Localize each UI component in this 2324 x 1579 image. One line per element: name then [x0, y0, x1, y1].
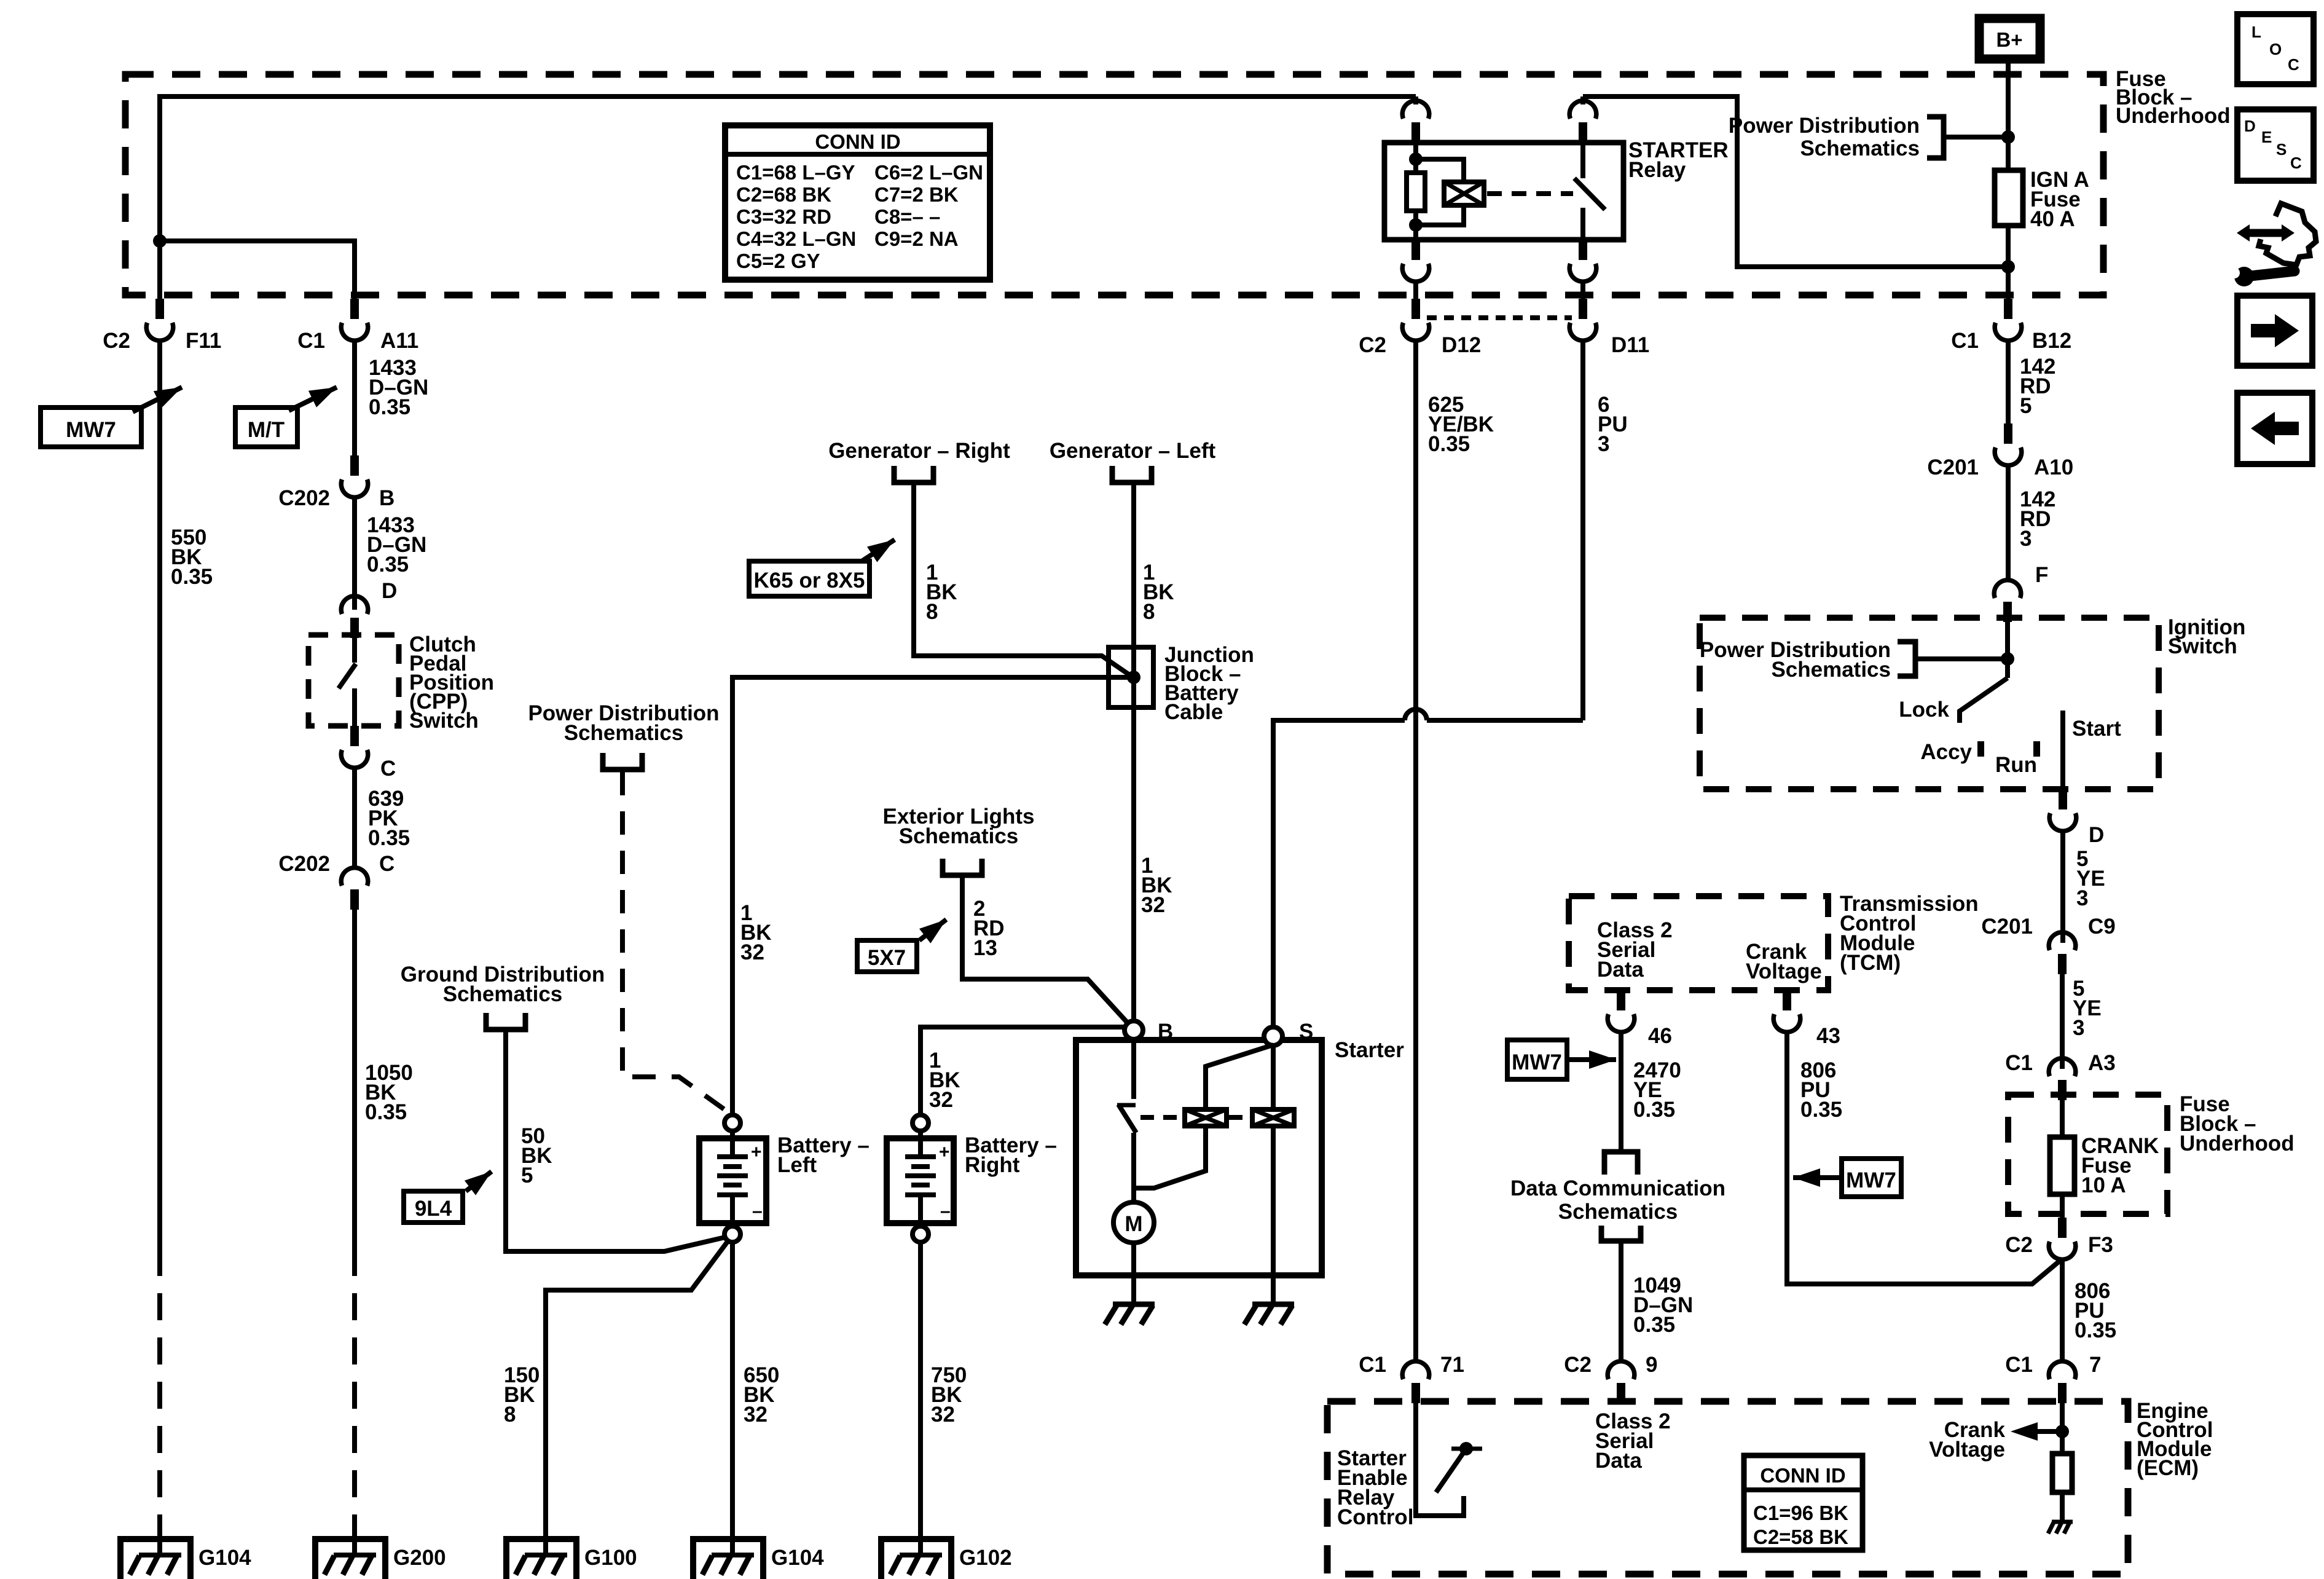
coil relay solenoid winding [1444, 182, 1484, 205]
node junction dot at power distribution tap [2001, 130, 2015, 144]
node junction dot on F11 wire [153, 234, 167, 248]
tick Run position [2033, 741, 2040, 757]
junction block battery cable box [1109, 647, 1153, 707]
svg-text:D11: D11 [1611, 333, 1649, 357]
wire relay switch pin internal lower [1580, 208, 1585, 240]
svg-text:32: 32 [931, 1403, 955, 1427]
svg-text:Schematics: Schematics [1558, 1200, 1678, 1224]
wire into CRANK fuse [2060, 1100, 2065, 1137]
wire motor to ground [1131, 1243, 1136, 1303]
wire dashed power distribution to battery positive [622, 772, 727, 1111]
svg-text:MW7: MW7 [66, 418, 116, 442]
svg-text:Relay: Relay [1628, 158, 1686, 182]
connector relay coil pin lower inner [1402, 240, 1429, 282]
svg-text:C1: C1 [1951, 329, 1979, 353]
label C1 A3 [2005, 1051, 2116, 1075]
node ECM crank voltage dot [2055, 1425, 2069, 1438]
bracket power distribution schematics (top) [1927, 117, 1944, 158]
wire starter enable relay control internal [1416, 1403, 1464, 1516]
svg-text:0.35: 0.35 [1633, 1313, 1675, 1337]
wire branch junction block to battery left [732, 677, 1134, 1115]
svg-text:32: 32 [929, 1088, 953, 1112]
box MW7 reference (TCM) [1507, 1040, 1567, 1079]
wire starter S to ground [1271, 1126, 1276, 1275]
ignition switch dashed box [1700, 618, 2159, 789]
ground G104 center [693, 1539, 763, 1579]
svg-text:Schematics: Schematics [564, 721, 684, 745]
svg-text:S: S [2276, 140, 2287, 159]
node ignition feed dot [2001, 652, 2014, 666]
bracket exterior lights off-page [943, 859, 982, 875]
wire relay actuation dashed link [1487, 191, 1573, 196]
svg-text:C6=2 L–GN: C6=2 L–GN [874, 161, 983, 184]
svg-text:G100: G100 [584, 1546, 637, 1570]
wire stub into ground G200 [352, 1518, 357, 1556]
connector pin C below CPP switch [341, 726, 368, 768]
svg-text:32: 32 [1141, 893, 1165, 917]
wire stub into ground G104 left [157, 1518, 162, 1556]
wire starter B internal [1131, 1039, 1136, 1099]
box M/T reference [235, 408, 297, 447]
svg-text:M: M [1125, 1212, 1142, 1236]
wire starter S internal [1271, 1045, 1276, 1109]
wire dashed 1050 BK to G200 [352, 1249, 357, 1518]
connector TCM pin 43 [1773, 990, 1800, 1032]
node junction block dot [1127, 671, 1140, 684]
table CONN ID underhood fuse block [725, 125, 990, 280]
label Power Distribution Schematics (left) [528, 701, 719, 745]
svg-text:0.35: 0.35 [171, 565, 213, 589]
svg-text:Switch: Switch [2168, 634, 2237, 658]
svg-text:F: F [2035, 563, 2048, 587]
svg-text:D: D [2089, 823, 2104, 847]
ground G104 left [120, 1539, 190, 1579]
bracket data communication upper [1604, 1152, 1638, 1175]
svg-text:0.35: 0.35 [369, 395, 410, 419]
connector C1 71 into ECM [1402, 1361, 1429, 1403]
svg-text:B12: B12 [2032, 329, 2071, 353]
wire 1 BK generator left to starter B [1131, 485, 1136, 1020]
svg-text:3: 3 [2020, 527, 2032, 551]
connector relay switch pin lower inner [1569, 240, 1596, 282]
svg-text:A11: A11 [380, 329, 418, 353]
svg-text:+: + [939, 1142, 950, 1162]
box 5X7 reference [857, 940, 917, 972]
connector C202 C [341, 868, 368, 910]
svg-text:10 A: 10 A [2081, 1173, 2126, 1197]
wire starter solenoid actuation dashes [1140, 1115, 1250, 1120]
coil starter solenoid pull-in [1185, 1109, 1227, 1126]
svg-text:C202: C202 [278, 852, 330, 876]
table CONN ID rows left column [736, 161, 856, 272]
arrow MW7 to wire 806 [1793, 1175, 1842, 1180]
svg-text:O: O [2269, 40, 2282, 58]
svg-text:Generator – Left: Generator – Left [1050, 439, 1216, 463]
wire resistor to ECM ground [2060, 1492, 2065, 1522]
label C1 7 [2005, 1353, 2101, 1377]
svg-text:C8=– –: C8=– – [874, 205, 940, 228]
connector C1 7 into ECM [2049, 1361, 2076, 1403]
connector C2 9 into ECM [1608, 1361, 1635, 1403]
svg-text:C: C [379, 852, 395, 876]
svg-text:Underhood: Underhood [2116, 104, 2231, 128]
arrow MW7 to wire 550 [133, 387, 182, 412]
ground G200 [315, 1539, 385, 1579]
svg-text:C5=2 GY: C5=2 GY [736, 250, 820, 272]
wire B+ drop into fuse block [2006, 63, 2011, 170]
wire 550 BK down from F11 [157, 341, 162, 1249]
box MW7 reference (crank voltage) [1842, 1159, 1901, 1197]
wire relay switch pin to D11 [1580, 282, 1585, 299]
connector pin F into ignition switch [1994, 580, 2021, 622]
wire 650 BK 32 battery left to G104 [730, 1242, 735, 1556]
wire relay coil pin internal [1413, 143, 1418, 240]
wire 806 PU from TCM pin 43 [1787, 1032, 2062, 1284]
svg-text:C3=32 RD: C3=32 RD [736, 205, 831, 228]
label Data Communication Schematics [1510, 1176, 1725, 1224]
wire 1 BK 32 battery right to starter B [921, 1027, 1134, 1115]
svg-text:M/T: M/T [248, 418, 285, 442]
terminal battery left positive circle [724, 1115, 740, 1131]
label C2 F3 [2005, 1233, 2113, 1257]
wire starter S branch to solenoid [1206, 1045, 1273, 1109]
label C202 B [278, 486, 395, 510]
switch CPP blade open [339, 664, 356, 688]
svg-text:C2: C2 [103, 329, 130, 353]
ground ECM internal [2048, 1522, 2073, 1534]
wire top rail from F11 feed to starter relay [160, 96, 1416, 299]
svg-text:+: + [751, 1142, 762, 1162]
connector TCM pin 46 [1608, 990, 1635, 1032]
svg-text:0.35: 0.35 [368, 826, 410, 850]
svg-text:C201: C201 [1927, 455, 1979, 479]
label C2 D12 [1359, 333, 1481, 357]
wire power distribution schematics tap [1944, 135, 2008, 140]
box K65 or 8X5 reference [749, 561, 870, 596]
wire 1050 BK [352, 910, 357, 1249]
label C201 C9 [1981, 915, 2115, 939]
connector D11 at fuse block [1569, 299, 1596, 341]
icon wrench navigation [2229, 203, 2316, 286]
switch starter contact tick [1117, 1103, 1136, 1108]
connector C202 B [341, 455, 368, 497]
wire Start contact [2060, 711, 2065, 789]
wire stub into ground G100 [543, 1518, 548, 1556]
bracket ground distribution off-page [486, 1013, 525, 1030]
tick Accy position [1977, 741, 1984, 757]
terminal battery right negative circle [913, 1226, 928, 1242]
switch Clutch Pedal Position dashed box [308, 635, 399, 726]
wire relay switch pin internal upper [1580, 143, 1585, 178]
svg-text:3: 3 [2073, 1016, 2084, 1040]
svg-text:B: B [1158, 1020, 1173, 1044]
wire branch to A11 [160, 241, 355, 299]
svg-text:9L4: 9L4 [415, 1197, 452, 1221]
battery Battery - Left box [699, 1138, 766, 1223]
svg-text:–: – [752, 1201, 763, 1221]
svg-text:Generator – Right: Generator – Right [828, 439, 1010, 463]
svg-text:C1: C1 [1359, 1353, 1386, 1377]
svg-text:8: 8 [504, 1403, 516, 1427]
icon forward arrow box [2237, 296, 2312, 366]
wire starter motor feed [1131, 1133, 1136, 1202]
node junction dot below IGN A fuse [2001, 260, 2015, 274]
svg-text:Start: Start [2072, 717, 2121, 741]
svg-text:S: S [1299, 1020, 1313, 1044]
svg-text:40 A: 40 A [2030, 207, 2075, 231]
svg-text:D: D [2244, 117, 2256, 135]
coil starter solenoid hold-in [1252, 1109, 1294, 1126]
bracket power distribution ignition [1898, 642, 1915, 676]
svg-text:(ECM): (ECM) [2137, 1456, 2199, 1480]
svg-text:3: 3 [1598, 432, 1609, 456]
table CONN ID ECM [1744, 1455, 1863, 1550]
svg-text:Voltage: Voltage [1929, 1438, 2005, 1462]
svg-text:8: 8 [926, 600, 938, 624]
connector C1 A3 [2049, 1058, 2076, 1100]
wire 50 BK 5 to battery left negative [506, 1032, 725, 1251]
wire 639 PK [352, 768, 357, 868]
bracket data communication lower [1601, 1226, 1641, 1241]
switch starter solenoid blade [1118, 1105, 1136, 1133]
wire 142 RD 5 from B12 [2006, 341, 2011, 423]
fuse block underhood dashed boundary box [125, 74, 2103, 295]
svg-text:C9=2 NA: C9=2 NA [874, 227, 959, 250]
wire below IGN A fuse [2006, 226, 2011, 299]
svg-text:43: 43 [1816, 1024, 1840, 1048]
arrow M/T to wire 1433 [289, 387, 337, 411]
svg-text:C7=2 BK: C7=2 BK [874, 183, 959, 206]
svg-text:8: 8 [1143, 600, 1155, 624]
label C201 A10 [1927, 455, 2073, 479]
svg-text:C2=68 BK: C2=68 BK [736, 183, 831, 206]
wire dotted connector body D12-D11 [1427, 315, 1572, 320]
connector C201 A10 [1995, 423, 2022, 465]
svg-text:D: D [382, 579, 397, 603]
svg-text:0.35: 0.35 [1800, 1098, 1842, 1122]
arrow K65 to generator right wire [863, 540, 895, 561]
node starter enable driver dot [1459, 1442, 1473, 1455]
connector C1 A11 at fuse block [341, 299, 368, 341]
wire 750 BK 32 battery right to G102 [918, 1242, 923, 1556]
table CONN ID rows right column [874, 161, 983, 250]
svg-text:Voltage: Voltage [1746, 959, 1822, 983]
connector C1 B12 at fuse block [1995, 299, 2022, 341]
wire dashed lower 550 BK to G104 [157, 1249, 162, 1518]
fuse block underhood (crank) dashed box [2008, 1095, 2167, 1214]
svg-text:D12: D12 [1442, 333, 1481, 357]
svg-text:G200: G200 [393, 1546, 446, 1570]
terminal B starter circle [1125, 1021, 1143, 1039]
svg-text:32: 32 [744, 1403, 767, 1427]
wire power distribution tap to ignition feed [1915, 656, 2008, 661]
starter box [1076, 1040, 1322, 1275]
svg-text:CONN ID: CONN ID [815, 130, 900, 153]
connector relay switch pin upper [1580, 96, 1585, 104]
connector pin D ignition switch output [2049, 789, 2076, 831]
svg-text:5X7: 5X7 [868, 946, 906, 970]
svg-text:(TCM): (TCM) [1840, 951, 1901, 975]
svg-text:L: L [2251, 23, 2261, 41]
label C202 C [278, 852, 395, 876]
connector C2 F3 [2049, 1218, 2076, 1259]
wire 1 BK 8 generator right [914, 485, 1129, 675]
icon DESC box [2237, 109, 2314, 181]
arrow 9L4 to wire 50 BK [466, 1171, 492, 1191]
svg-text:C1: C1 [2005, 1353, 2033, 1377]
svg-text:32: 32 [740, 940, 764, 964]
svg-text:Cable: Cable [1164, 700, 1223, 724]
ground G102 [881, 1539, 951, 1579]
wire rail from relay switch to B+ node [1583, 96, 2008, 267]
svg-text:F11: F11 [186, 329, 221, 353]
node relay coil top dot [1409, 152, 1423, 166]
svg-text:Data: Data [1597, 958, 1644, 982]
wire CPP switch lower contact [352, 688, 357, 726]
wire relay coil loop [1416, 159, 1464, 182]
svg-text:0.35: 0.35 [1633, 1098, 1675, 1122]
wire ignition feed internal [2005, 622, 2010, 678]
box MW7 rpo reference [41, 408, 141, 447]
svg-text:C1: C1 [297, 329, 325, 353]
svg-text:0.35: 0.35 [1428, 432, 1470, 456]
svg-text:Schematics: Schematics [443, 982, 563, 1006]
label C2 F11 [103, 329, 221, 353]
svg-text:Data: Data [1595, 1449, 1642, 1473]
svg-text:Schematics: Schematics [1800, 136, 1920, 160]
connector C2 D12 at fuse block [1402, 299, 1429, 341]
svg-text:Power Distribution: Power Distribution [1729, 114, 1920, 138]
connector C201 C9 [2049, 932, 2076, 974]
fuse IGN A 40 A [1995, 170, 2023, 226]
ground starter solenoid [1244, 1304, 1294, 1325]
wire 150 BK 8 from G100 to battery left negative [546, 1242, 728, 1518]
ground G100 [506, 1539, 576, 1579]
svg-text:B+: B+ [1996, 28, 2022, 51]
bracket generator right off-page [894, 466, 933, 482]
label C2 9 [1564, 1353, 1657, 1377]
battery left plates [717, 1131, 748, 1226]
node relay coil bottom dot [1409, 218, 1423, 232]
switch ignition rotary blade to Lock [1960, 678, 2008, 723]
svg-text:MW7: MW7 [1846, 1168, 1896, 1192]
svg-text:C4=32 L–GN: C4=32 L–GN [736, 227, 856, 250]
fuse CRANK 10 A [2050, 1137, 2075, 1194]
svg-text:5: 5 [521, 1164, 533, 1187]
transmission control module dashed box [1569, 896, 1828, 990]
svg-text:MW7: MW7 [1512, 1050, 1562, 1074]
svg-text:Lock: Lock [1899, 698, 1949, 722]
resistor relay coil suppression [1407, 173, 1425, 211]
svg-text:C2: C2 [1359, 333, 1386, 357]
svg-text:K65 or 8X5: K65 or 8X5 [754, 569, 865, 593]
svg-text:0.35: 0.35 [367, 553, 409, 577]
svg-text:C: C [2290, 154, 2302, 172]
label Crank Voltage (ECM) [1929, 1418, 2005, 1462]
wire solenoid to motor feed [1136, 1126, 1206, 1188]
wire 5 YE 3 lower [2060, 974, 2065, 1069]
battery right plates [905, 1131, 936, 1226]
svg-text:Data Communication: Data Communication [1510, 1176, 1725, 1200]
label Exterior Lights Schematics [883, 805, 1035, 848]
switch starter enable driver blade [1436, 1449, 1466, 1492]
svg-text:Right: Right [965, 1153, 1020, 1177]
svg-text:C9: C9 [2088, 915, 2116, 939]
wire below CRANK fuse [2060, 1194, 2065, 1218]
bracket generator left off-page [1112, 466, 1152, 482]
wire 142 RD 3 [2006, 465, 2011, 579]
svg-text:Underhood: Underhood [2180, 1132, 2295, 1156]
wire relay coil pin to D12 [1413, 282, 1418, 299]
wire 1433 D-GN from A11 [352, 341, 357, 455]
svg-text:Left: Left [777, 1153, 817, 1177]
svg-text:–: – [940, 1201, 951, 1221]
terminal battery left negative circle [724, 1226, 740, 1242]
svg-text:13: 13 [973, 936, 997, 960]
svg-text:C1: C1 [2005, 1051, 2033, 1075]
wire solenoid ground stub [1271, 1275, 1276, 1303]
engine control module dashed box [1327, 1401, 2128, 1574]
label C1 B12 [1951, 329, 2071, 353]
svg-text:Control: Control [1337, 1505, 1413, 1529]
svg-text:C: C [380, 757, 396, 781]
box 9L4 reference [404, 1191, 463, 1223]
svg-text:C: C [2288, 55, 2299, 74]
wire 625 YE/BK starter enable relay control [1413, 341, 1418, 1360]
label C1 A11 [297, 329, 418, 353]
arrow 5X7 to wire 2 RD [919, 919, 946, 940]
wire 2 RD 13 to starter B terminal [962, 878, 1126, 1022]
svg-text:Accy: Accy [1920, 740, 1972, 764]
relay STARTER Relay box [1384, 143, 1623, 240]
svg-text:G104: G104 [771, 1546, 824, 1570]
svg-text:CONN ID: CONN ID [1760, 1464, 1845, 1487]
svg-text:G102: G102 [959, 1546, 1012, 1570]
wire 2470 YE [1619, 1032, 1623, 1152]
svg-text:Switch: Switch [409, 709, 479, 733]
terminal S starter circle [1264, 1027, 1282, 1045]
wire 1049 D-GN [1619, 1243, 1623, 1360]
resistor ECM crank voltage pull [2052, 1454, 2072, 1492]
svg-text:E: E [2261, 128, 2272, 146]
svg-text:C202: C202 [278, 486, 330, 510]
wire ECM crank voltage internal [2060, 1403, 2065, 1454]
svg-text:C2: C2 [2005, 1233, 2033, 1257]
wire 6 PU from D11 to starter S [1273, 341, 1583, 1027]
wire 806 PU to ECM [2060, 1259, 2065, 1360]
svg-text:0.35: 0.35 [365, 1100, 407, 1124]
connector relay coil pin upper [1413, 96, 1418, 104]
wire 1433 D-GN to CPP switch [352, 497, 357, 610]
svg-text:C2: C2 [1564, 1353, 1592, 1377]
B+ power feed box [1979, 18, 2040, 59]
ground starter motor [1105, 1304, 1155, 1325]
svg-text:Starter: Starter [1335, 1038, 1404, 1062]
connector C2 F11 at fuse block [146, 299, 173, 341]
label Power Distribution Schematics (ignition) [1700, 638, 1891, 682]
svg-text:0.35: 0.35 [2075, 1318, 2116, 1342]
svg-text:Run: Run [1995, 753, 2037, 777]
motor M starter [1113, 1202, 1154, 1243]
svg-text:G104: G104 [198, 1546, 251, 1570]
svg-text:C2=58 BK: C2=58 BK [1753, 1526, 1848, 1548]
switch starter enable driver tick [1451, 1447, 1482, 1451]
svg-text:A10: A10 [2034, 455, 2073, 479]
label C1 71 [1359, 1353, 1464, 1377]
svg-text:C201: C201 [1981, 915, 2033, 939]
svg-text:B: B [379, 486, 395, 510]
wire CPP switch upper contact [352, 638, 357, 663]
